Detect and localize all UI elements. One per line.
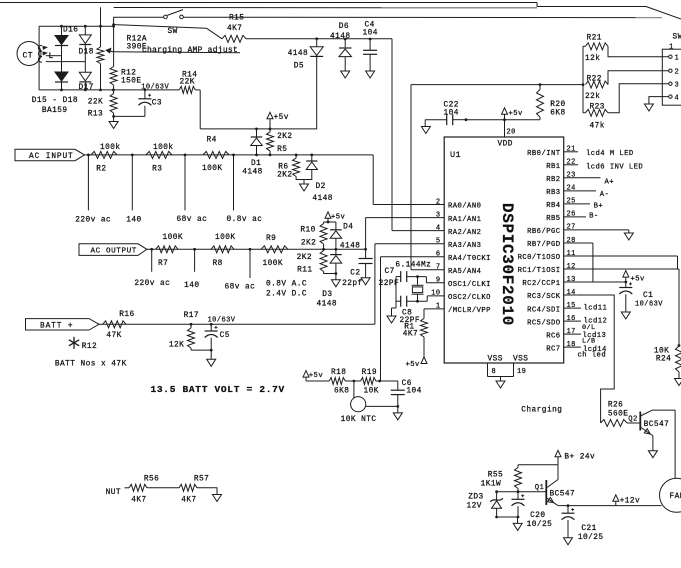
- svg-text:lcd11: lcd11: [584, 305, 608, 313]
- svg-text:Q2: Q2: [628, 415, 638, 423]
- wire AC output to pin3: [366, 218, 445, 250]
- svg-text:18: 18: [567, 341, 576, 349]
- resistor R21 12k: [583, 35, 608, 64]
- svg-text:2K2: 2K2: [297, 254, 312, 262]
- svg-text:R15: R15: [229, 15, 244, 23]
- svg-text:1: 1: [669, 44, 674, 52]
- resistor R8 100K: [211, 234, 236, 268]
- svg-text:4148: 4148: [312, 195, 333, 203]
- svg-text:+5v: +5v: [331, 213, 346, 221]
- label D15 - D18 BA159: [32, 97, 78, 115]
- crystal 6.144Mz: [412, 275, 424, 302]
- svg-text:R8: R8: [213, 260, 223, 268]
- wire CT left rail: [38, 26, 40, 90]
- transformer CT: [17, 42, 41, 66]
- capacitor C20 10/25: [512, 492, 553, 529]
- wire R14 to 5v rail: [195, 90, 317, 130]
- svg-text:RC3/SCK: RC3/SCK: [527, 293, 561, 301]
- svg-text:D15 - D18: D15 - D18: [32, 97, 78, 105]
- svg-text:B+ 24v: B+ 24v: [564, 454, 595, 462]
- diode D15: [55, 46, 68, 90]
- svg-text:charging AMP adjust: charging AMP adjust: [142, 46, 238, 55]
- label asterisk R12: [69, 337, 97, 351]
- label NUT: [106, 488, 129, 497]
- resistor R16 47K: [103, 311, 135, 340]
- svg-text:22: 22: [567, 159, 576, 167]
- wire winding taps: [46, 56, 86, 62]
- wire R10 D4 top: [324, 221, 336, 223]
- svg-text:RA2/AN2: RA2/AN2: [448, 229, 481, 237]
- wire BATT to pin5: [375, 244, 444, 325]
- svg-text:R26: R26: [608, 402, 623, 410]
- svg-text:RA3/AN3: RA3/AN3: [448, 242, 481, 250]
- diode D6 4148: [330, 23, 351, 71]
- transistor Q2 BC547: [627, 410, 669, 434]
- svg-text:C1: C1: [643, 292, 653, 300]
- svg-text:D2: D2: [316, 183, 326, 191]
- ground below C2: [361, 278, 370, 285]
- wire pin24 stub A-: [564, 191, 610, 199]
- wire pin27 to ground: [564, 230, 629, 233]
- svg-text:+5v: +5v: [631, 276, 646, 284]
- svg-text:L/B: L/B: [582, 338, 596, 346]
- svg-text:24: 24: [567, 185, 576, 193]
- svg-text:6.144Mz: 6.144Mz: [395, 262, 431, 270]
- resistor R15 4K7: [222, 15, 246, 43]
- svg-text:R10: R10: [300, 227, 315, 235]
- wire R18 R19 junction: [345, 380, 360, 383]
- svg-text:RB0/INT: RB0/INT: [527, 150, 561, 158]
- ground below C20: [513, 517, 522, 530]
- wire pin11 net: [564, 256, 678, 269]
- capacitor C3 10/63V: [138, 83, 169, 116]
- label 0.8V A.C 2.4V D.C: [266, 280, 307, 298]
- svg-text:R18: R18: [331, 369, 346, 377]
- svg-text:23: 23: [567, 172, 576, 180]
- wire ZD3 C20 bottom rail: [495, 516, 519, 519]
- wire R18 left: [306, 380, 329, 382]
- svg-text:22K: 22K: [180, 79, 195, 87]
- svg-text:11: 11: [567, 250, 576, 258]
- wire OSC2 to pin10: [427, 296, 444, 301]
- wire C7 C8 left node: [392, 277, 397, 308]
- svg-text:20: 20: [507, 129, 516, 137]
- resistor R1 4K7: [403, 319, 428, 339]
- svg-text:9: 9: [436, 277, 441, 285]
- resistor R12 150E: [110, 67, 141, 90]
- resistor R11 2K2: [297, 249, 336, 274]
- svg-text:12: 12: [567, 263, 576, 271]
- svg-text:10K NTC: 10K NTC: [341, 416, 377, 424]
- wire R21 R22 R23 left tie: [582, 46, 584, 113]
- wire pot column from border: [100, 7, 102, 47]
- diode D16: [55, 26, 78, 45]
- ground below D3: [331, 280, 340, 287]
- capacitor C21 10/25: [562, 506, 604, 542]
- svg-text:U1: U1: [450, 150, 461, 160]
- capacitor C4 104: [363, 22, 378, 72]
- labels U1 right pins: [518, 146, 576, 354]
- svg-text:R20: R20: [550, 101, 565, 109]
- svg-text:R23: R23: [590, 104, 605, 112]
- wire pin22 stub lcd6: [564, 163, 643, 171]
- svg-text:4148: 4148: [340, 243, 361, 251]
- svg-text:104: 104: [406, 387, 421, 395]
- resistor R3 100k: [146, 144, 174, 174]
- svg-text:8: 8: [492, 368, 497, 376]
- svg-text:10/63V: 10/63V: [208, 316, 236, 324]
- label Charging: [521, 406, 562, 414]
- svg-text:ZD3: ZD3: [468, 493, 483, 501]
- ground after R57: [197, 488, 222, 502]
- wire pin18 stub lcd14: [564, 346, 607, 354]
- motor FAN: [660, 478, 681, 512]
- svg-text:R17: R17: [184, 312, 199, 320]
- svg-text:2: 2: [675, 69, 680, 77]
- svg-text:RB6/PGC: RB6/PGC: [527, 228, 561, 236]
- resistor R24 10K: [654, 344, 681, 372]
- svg-text:R19: R19: [362, 369, 377, 377]
- op-amp U1 DSPIC30F2010: [444, 137, 564, 364]
- svg-text:3: 3: [436, 211, 441, 219]
- svg-text:15: 15: [567, 302, 576, 310]
- svg-text:150E: 150E: [121, 78, 142, 86]
- svg-text:140: 140: [126, 217, 141, 225]
- svg-text:OSC1/CLKI: OSC1/CLKI: [448, 281, 491, 289]
- wire second border line: [114, 7, 537, 9]
- svg-text:B+: B+: [594, 202, 604, 210]
- wire Q1 base: [495, 490, 546, 493]
- wire top border line: [0, 3, 681, 20]
- ground at SW pin4: [644, 104, 653, 111]
- svg-text:R56: R56: [144, 475, 159, 483]
- svg-text:/MCLR/VPP: /MCLR/VPP: [448, 307, 491, 315]
- svg-text:2: 2: [436, 198, 441, 206]
- svg-text:RB7/PGD: RB7/PGD: [527, 241, 560, 249]
- resistor R55 1K1W: [481, 465, 522, 492]
- node BATT + flag: [26, 319, 100, 331]
- wire R15 branch: [112, 23, 222, 39]
- wire R22 to SW pin2: [608, 71, 669, 85]
- ground below Q2: [648, 451, 657, 458]
- svg-text:AC INPUT: AC INPUT: [29, 153, 74, 161]
- connector SW: [662, 34, 681, 106]
- wire bridge top rail: [39, 25, 115, 28]
- svg-text:D5: D5: [294, 62, 304, 70]
- svg-text:RC2/CCP1: RC2/CCP1: [522, 280, 560, 288]
- label L/B: [582, 338, 596, 346]
- node AC OUTPUT flag: [79, 244, 147, 256]
- svg-text:BATT Nos x 47K: BATT Nos x 47K: [55, 361, 127, 369]
- svg-text:D6: D6: [339, 23, 349, 31]
- power +12v: [613, 495, 640, 506]
- svg-text:C3: C3: [152, 100, 162, 108]
- wire R15 to D5 D6 C4 and pin4 riser: [246, 37, 444, 230]
- svg-text:B-: B-: [589, 213, 599, 221]
- diode D17: [79, 45, 94, 93]
- svg-text:RC5/SDO: RC5/SDO: [527, 319, 560, 327]
- resistor R22 22k: [585, 76, 608, 101]
- svg-text:R5: R5: [277, 146, 287, 154]
- svg-text:22k: 22k: [585, 93, 600, 101]
- ground below C4: [366, 71, 375, 78]
- diode D18: [79, 26, 94, 56]
- svg-text:1: 1: [436, 303, 441, 311]
- svg-text:R55: R55: [488, 471, 503, 479]
- svg-text:10/63V: 10/63V: [141, 83, 169, 91]
- svg-text:+5v: +5v: [274, 114, 289, 122]
- wire pin23 stub A+: [564, 178, 614, 187]
- svg-text:RB3: RB3: [546, 189, 560, 197]
- resistor R17 12K: [169, 312, 199, 350]
- capacitor C8 22PF: [396, 296, 427, 325]
- resistor R9 100K: [261, 235, 288, 268]
- svg-text:CT: CT: [23, 52, 34, 61]
- wire pin15 stub lcd11: [564, 305, 608, 313]
- resistor R26 560E: [601, 402, 629, 427]
- svg-text:RB4: RB4: [546, 202, 560, 210]
- svg-text:R24: R24: [656, 356, 671, 364]
- wire +12v rail: [558, 504, 662, 507]
- svg-text:220v ac: 220v ac: [75, 217, 111, 225]
- svg-text:+5v: +5v: [309, 372, 324, 380]
- resistor R13 22K: [88, 90, 117, 118]
- svg-text:2.4V D.C: 2.4V D.C: [266, 290, 307, 298]
- svg-text:BA159: BA159: [42, 107, 68, 115]
- svg-text:4148: 4148: [288, 50, 309, 58]
- svg-text:C20: C20: [530, 512, 545, 520]
- potentiometer R12A 390E: [97, 36, 147, 90]
- ground below C1: [621, 312, 630, 319]
- diode D3 4148: [317, 249, 342, 308]
- power +5v at R18: [303, 371, 323, 381]
- svg-text:C5: C5: [220, 332, 230, 340]
- svg-text:R16: R16: [119, 311, 134, 319]
- wire 220v ac drop: [75, 155, 111, 225]
- ground below R13: [109, 116, 118, 128]
- wire pin14 to R26: [564, 295, 615, 423]
- svg-text:RA1/AN1: RA1/AN1: [448, 216, 481, 224]
- svg-text:16: 16: [567, 315, 576, 323]
- svg-text:+12v: +12v: [620, 497, 641, 505]
- svg-text:RB1: RB1: [546, 163, 560, 171]
- wire pin 20 VDD: [505, 120, 516, 137]
- svg-text:VSS: VSS: [513, 356, 528, 364]
- wire 0.8v ac drop: [227, 155, 263, 224]
- labels U1 left pins: [431, 198, 491, 315]
- svg-text:SW: SW: [673, 34, 681, 42]
- wire pin16 stub lcd12: [564, 318, 608, 326]
- resistor R19 10K: [361, 369, 379, 395]
- svg-text:12V: 12V: [467, 503, 482, 511]
- svg-text:28: 28: [567, 237, 576, 245]
- svg-text:D4: D4: [343, 224, 353, 232]
- svg-text:D16: D16: [63, 27, 78, 35]
- wire BATT net: [99, 323, 375, 326]
- wire VDD rail: [465, 118, 540, 121]
- ground below D6: [341, 71, 350, 78]
- svg-text:0.8v ac: 0.8v ac: [227, 216, 263, 224]
- svg-text:100K: 100K: [202, 165, 223, 173]
- svg-text:1K1W: 1K1W: [481, 480, 502, 488]
- svg-text:AC OUTPUT: AC OUTPUT: [91, 248, 137, 256]
- svg-text:R3: R3: [152, 166, 162, 174]
- svg-text:+5v: +5v: [406, 361, 421, 369]
- svg-text:NUT: NUT: [106, 489, 121, 497]
- svg-text:7: 7: [436, 264, 441, 272]
- svg-text:BC547: BC547: [550, 490, 576, 498]
- capacitor C2 22pf: [342, 249, 373, 287]
- svg-text:OSC2/CLKO: OSC2/CLKO: [448, 294, 491, 302]
- resistor R57 4K7: [179, 475, 209, 504]
- wire pin17 stub lcd13: [564, 332, 607, 340]
- svg-text:47K: 47K: [106, 332, 121, 340]
- ground below C21: [564, 538, 573, 545]
- svg-text:DSPIC30F2010: DSPIC30F2010: [498, 203, 516, 326]
- svg-text:104: 104: [444, 110, 459, 118]
- svg-text:4K7: 4K7: [181, 497, 196, 505]
- resistor R4 100K: [202, 137, 229, 174]
- capacitor C7 22PF: [379, 268, 427, 288]
- resistor R5 2K2: [267, 129, 293, 155]
- svg-text:10: 10: [431, 290, 440, 298]
- label 0/L: [582, 324, 596, 332]
- wire R19 to C6: [376, 380, 398, 383]
- svg-text:0/L: 0/L: [582, 324, 596, 332]
- svg-text:4K7: 4K7: [403, 330, 418, 338]
- svg-text:R12: R12: [82, 343, 97, 351]
- wire R23 to SW pin3: [608, 84, 669, 113]
- svg-text:A-: A-: [600, 191, 610, 199]
- svg-text:R4: R4: [207, 137, 217, 145]
- wire AC input to pin2: [373, 155, 444, 205]
- svg-text:C22: C22: [444, 102, 459, 110]
- svg-text:VDD: VDD: [498, 141, 513, 149]
- capacitor C22 104: [425, 102, 466, 126]
- svg-text:4148: 4148: [242, 168, 263, 176]
- svg-text:2K2: 2K2: [301, 239, 316, 247]
- svg-text:140: 140: [184, 282, 199, 290]
- wire OSC1 to pin9: [426, 277, 444, 283]
- label 6.144Mz: [395, 262, 431, 270]
- power B+ 24v: [555, 450, 595, 464]
- svg-text:4148: 4148: [330, 33, 351, 41]
- svg-text:R13: R13: [88, 110, 103, 118]
- svg-text:R12A: R12A: [127, 36, 148, 44]
- svg-text:100k: 100k: [100, 144, 121, 152]
- wire pin26 stub B-: [564, 213, 599, 221]
- svg-text:RC7: RC7: [546, 345, 560, 353]
- svg-text:RA5/AN4: RA5/AN4: [448, 268, 481, 276]
- svg-text:26: 26: [567, 211, 576, 219]
- svg-text:RB2: RB2: [546, 176, 560, 184]
- svg-text:6: 6: [436, 251, 441, 259]
- svg-text:12k: 12k: [585, 55, 600, 63]
- svg-text:R21: R21: [587, 35, 602, 43]
- svg-text:100k: 100k: [153, 144, 174, 152]
- wire Q2 collector to FAN: [653, 410, 676, 478]
- svg-text:+5v: +5v: [509, 110, 524, 118]
- svg-text:R57: R57: [194, 475, 209, 483]
- svg-text:68v ac: 68v ac: [177, 216, 208, 224]
- wire 68v ac drop: [177, 155, 208, 224]
- svg-text:L: L: [49, 52, 54, 61]
- resistor R20 6K8: [537, 85, 566, 120]
- wire 140 drop: [126, 155, 141, 225]
- svg-text:RC1/T1OSI: RC1/T1OSI: [518, 267, 561, 275]
- svg-text:VSS: VSS: [488, 356, 503, 364]
- wire MCLR to pin1: [424, 309, 444, 319]
- svg-text:RC4/SDI: RC4/SDI: [527, 306, 560, 314]
- svg-text:4148: 4148: [317, 301, 338, 309]
- label BATT Nos x 47K: [55, 361, 127, 369]
- svg-text:47k: 47k: [590, 123, 605, 131]
- svg-text:100K: 100K: [163, 234, 184, 242]
- svg-text:100K: 100K: [215, 234, 236, 242]
- zener ZD3 12V: [467, 492, 503, 517]
- svg-text:10K: 10K: [364, 387, 379, 395]
- resistor R18 6K8: [329, 369, 349, 395]
- resistor R7 100K: [156, 234, 183, 268]
- svg-text:RA0/AN0: RA0/AN0: [448, 203, 481, 211]
- svg-text:10/25: 10/25: [527, 521, 553, 529]
- svg-text:13.5 BATT VOLT = 2.7V: 13.5 BATT VOLT = 2.7V: [151, 384, 285, 395]
- svg-text:RC0/T1OSO: RC0/T1OSO: [518, 254, 561, 262]
- ground left of C22: [421, 120, 430, 134]
- svg-text:560E: 560E: [608, 411, 629, 419]
- svg-text:RC6: RC6: [546, 332, 560, 340]
- wire pin28 riser: [564, 243, 593, 282]
- svg-text:R7: R7: [158, 260, 168, 268]
- wire switch top net: [114, 16, 662, 18]
- wire 140 drop (output): [184, 249, 199, 290]
- wire R56 R57: [147, 487, 179, 489]
- svg-text:R6: R6: [278, 163, 288, 171]
- label ch led: [578, 352, 607, 360]
- svg-text:ch led: ch led: [578, 352, 607, 360]
- svg-text:Q1: Q1: [535, 484, 545, 492]
- svg-text:C4: C4: [365, 22, 375, 30]
- wire pin21 stub lcd4: [564, 150, 634, 158]
- svg-text:1: 1: [675, 55, 680, 63]
- svg-text:4: 4: [675, 95, 680, 103]
- svg-text:4: 4: [436, 224, 441, 232]
- svg-text:SW: SW: [168, 28, 178, 36]
- wire AC output net: [147, 248, 367, 251]
- capacitor C5 10/63V: [205, 316, 236, 350]
- svg-text:R12: R12: [121, 70, 136, 78]
- wire bridge bottom rail: [39, 89, 179, 92]
- svg-text:220v ac: 220v ac: [134, 280, 170, 288]
- svg-text:10K: 10K: [654, 347, 669, 355]
- switch SW: [164, 10, 184, 36]
- wire pin13 net: [564, 281, 627, 284]
- resistor R56 4K7: [129, 475, 159, 504]
- diode D4 4148: [330, 222, 360, 251]
- svg-text:RB5: RB5: [546, 215, 560, 223]
- wire NTC net to pin6: [381, 257, 445, 381]
- svg-text:6K8: 6K8: [334, 387, 349, 395]
- wire R17 C5 bottom: [191, 349, 213, 352]
- svg-text:6K8: 6K8: [550, 110, 565, 118]
- ground below C5: [207, 350, 216, 366]
- svg-text:14: 14: [567, 289, 576, 297]
- wire NTC to C6 bottom: [366, 405, 399, 408]
- thermistor 10K NTC: [341, 381, 377, 424]
- resistor R6 2K2: [277, 155, 304, 180]
- power +5v at R5: [267, 112, 289, 129]
- svg-text:4K7: 4K7: [227, 25, 242, 33]
